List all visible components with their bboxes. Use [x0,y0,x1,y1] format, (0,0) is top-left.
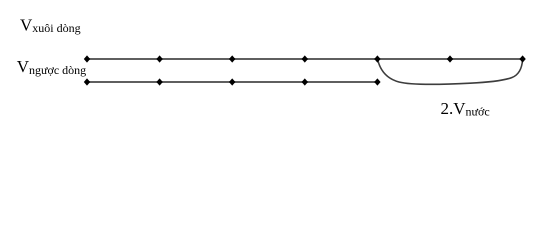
marker: diamond D4 top [302,55,308,62]
marker: diamond D6 top [447,55,453,62]
svg-text:Vngược dòng: Vngược dòng [17,57,86,77]
marker: diamond D7 top right end [519,55,525,62]
marker: diamond D12 bottom right end [374,78,380,85]
marker: diamond D2 top [156,55,162,62]
marker: diamond D9 bottom [156,78,162,85]
svg-text:Vxuôi dòng: Vxuôi dòng [20,16,81,36]
marker: diamond D11 bottom [302,78,308,85]
marker: diamond D8 bottom [84,78,90,85]
marker: diamond D5 top [374,55,380,62]
marker: diamond D1 top [84,55,90,62]
marker: diamond D3 top [229,55,235,62]
marker: diamond D10 bottom [229,78,235,85]
wire: top horizontal line (downstream) [87,58,523,60]
wire: bottom horizontal line (upstream) [87,81,377,83]
svg-text:2.Vnước: 2.Vnước [441,99,490,119]
curve: sag loop for 2.V_nuoc [378,59,523,84]
